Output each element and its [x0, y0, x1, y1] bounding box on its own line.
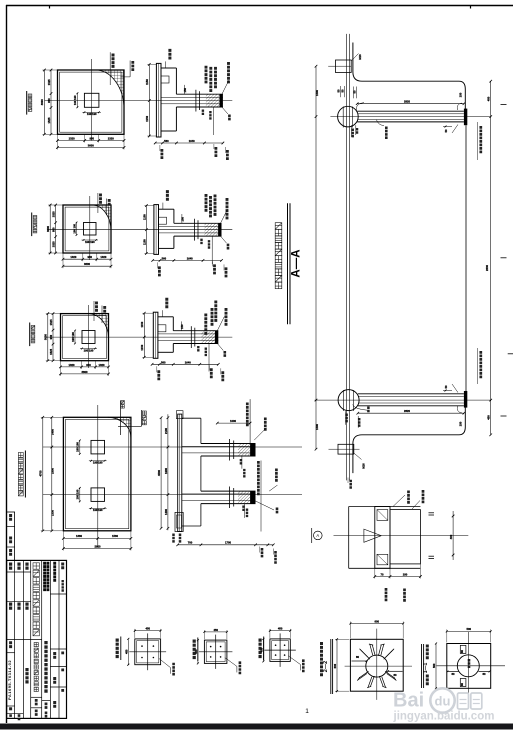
foundation slab outline (double border) — [58, 70, 125, 134]
quarter-circle rebar hatch zone — [95, 70, 124, 109]
foundation slab outline (double border) — [61, 314, 109, 361]
centerlines — [45, 100, 233, 102]
svg-text:2820: 2820 — [404, 409, 410, 413]
gusset wedge — [364, 529, 381, 542]
small dims beside upper clamp — [339, 86, 341, 97]
bottom black bar — [0, 724, 513, 730]
radial ribs of 2-2 — [386, 649, 394, 657]
svg-text:1640: 1640 — [185, 360, 191, 364]
svg-text:1320: 1320 — [70, 255, 76, 259]
svg-text:80: 80 — [394, 673, 397, 677]
svg-text:950: 950 — [88, 255, 93, 259]
anchor dim above section J-4 — [217, 422, 250, 424]
svg-text:1640: 1640 — [189, 139, 195, 143]
svg-text:50: 50 — [444, 129, 448, 132]
slab of section J-4 — [178, 414, 182, 531]
svg-text:1525: 1525 — [52, 241, 56, 247]
title of J-4 plan — [24, 451, 26, 498]
beam end plate and hatch — [215, 331, 218, 344]
svg-text:80: 80 — [460, 650, 464, 653]
pole circle of 1-1 — [457, 655, 479, 677]
quarter-circle rebar hatch zone — [88, 314, 109, 338]
right angle-steel note top — [479, 126, 482, 153]
svg-text:1360: 1360 — [76, 534, 82, 538]
svg-text:700: 700 — [188, 541, 193, 545]
svg-text:80: 80 — [483, 672, 486, 676]
dims of 1-1 — [447, 630, 491, 632]
bottom dims of J-4 — [63, 537, 130, 539]
svg-text:450: 450 — [145, 627, 150, 631]
pedestal — [84, 223, 97, 236]
svg-text:80: 80 — [356, 655, 359, 659]
below beam stubs of J-4 — [241, 456, 243, 469]
anchor bolt marks — [190, 326, 192, 348]
section view of foundation J-4 with two stub beams — [157, 399, 277, 564]
svg-text:1700: 1700 — [225, 541, 231, 545]
svg-text:2830: 2830 — [485, 265, 489, 271]
section view 3-3 of foundation J-3 — [140, 298, 226, 382]
embedded plate M-1 side detail — [312, 490, 469, 602]
svg-text:70: 70 — [381, 572, 384, 576]
weld marks — [429, 512, 435, 514]
svg-text:1500: 1500 — [315, 90, 319, 96]
section view 2-2 of foundation J-2 — [142, 190, 228, 277]
centerlines of 1-1 — [467, 632, 469, 700]
svg-text:3600: 3600 — [88, 144, 94, 148]
svg-text:190 190: 190 190 — [93, 508, 103, 512]
plan view foundation J-4 (double pedestal) — [18, 401, 302, 551]
svg-text:190 190: 190 190 — [76, 489, 80, 499]
80 dim arms of 2-2 — [352, 660, 367, 662]
pole circle of 2-2 — [366, 655, 388, 677]
svg-text:190 190: 190 190 — [73, 95, 77, 105]
plate body — [375, 507, 390, 569]
detail section 2-2 pole foundation — [322, 619, 413, 700]
foundation body outline — [158, 316, 173, 318]
svg-text:190 190: 190 190 — [71, 332, 75, 342]
upper crossarm — [357, 110, 464, 112]
anchor bolt marks — [195, 90, 197, 112]
excavation outline bottom — [353, 406, 465, 473]
detail section 1-1 pole foundation — [422, 627, 506, 700]
svg-text:180: 180 — [403, 572, 408, 576]
stub beam A of section J-4 — [201, 443, 256, 445]
right overall dim of A-A — [490, 81, 492, 435]
svg-text:1150: 1150 — [145, 115, 149, 121]
stub beam — [174, 222, 222, 224]
bottom dimension lines — [63, 258, 111, 260]
svg-text:1320: 1320 — [69, 137, 75, 141]
svg-text:1320: 1320 — [100, 255, 106, 259]
svg-text:4500: 4500 — [157, 470, 161, 476]
svg-text:80: 80 — [460, 683, 464, 686]
view title A-A with Chinese subtitle — [275, 203, 302, 324]
pole tip label — [349, 480, 352, 489]
svg-text:2820: 2820 — [404, 100, 410, 104]
svg-text:1400: 1400 — [164, 509, 168, 515]
pedestal — [82, 331, 95, 344]
svg-text:600: 600 — [333, 663, 337, 668]
material note leaders — [204, 314, 207, 335]
labels below upper clamp circle — [351, 125, 353, 137]
quarter-circle rebar hatch zone — [92, 205, 111, 231]
label 2-2 — [330, 639, 332, 694]
svg-text:950: 950 — [89, 137, 94, 141]
svg-text:50: 50 — [341, 89, 345, 92]
svg-text:950: 950 — [47, 98, 51, 103]
svg-text:1525: 1525 — [49, 319, 53, 325]
svg-text:190 190: 190 190 — [85, 240, 95, 244]
dim pockets of 1-1 — [460, 645, 466, 653]
svg-text:190 190: 190 190 — [72, 223, 76, 233]
svg-text:450: 450 — [278, 627, 283, 631]
section view 1-1 of foundation J-1 — [145, 49, 229, 160]
bottom dimension lines — [58, 140, 125, 142]
svg-text:1640: 1640 — [187, 256, 193, 260]
label 1-1 — [421, 644, 423, 688]
svg-text:M16: M16 — [358, 54, 362, 60]
pedestal dims of J-4 — [79, 440, 81, 454]
svg-text:1560: 1560 — [112, 534, 118, 538]
svg-text:950: 950 — [86, 363, 91, 367]
body of section J-4 — [182, 417, 201, 419]
svg-text:jingyan.baidu.com: jingyan.baidu.com — [393, 711, 495, 723]
svg-text:190 190: 190 190 — [84, 348, 94, 352]
left dimension lines — [47, 314, 49, 361]
svg-text:1150: 1150 — [140, 321, 144, 327]
pedestal dimensions 190x190 — [74, 331, 76, 344]
left dims of J-4 — [42, 417, 44, 531]
svg-text:80: 80 — [452, 672, 455, 676]
foundation slab edge view — [153, 312, 158, 358]
pedestal A of J-4 — [91, 440, 105, 454]
svg-text:Bai: Bai — [393, 690, 424, 712]
dim above upper crossarm — [357, 103, 464, 105]
anchor bolt marks — [194, 219, 196, 241]
beam end plate and hatch — [220, 94, 223, 107]
svg-text:560: 560 — [161, 360, 166, 364]
labels below lower clamp circle — [345, 411, 347, 425]
svg-text:950: 950 — [49, 334, 53, 339]
svg-text:50: 50 — [336, 89, 340, 92]
left dim of section J-4 — [160, 418, 162, 529]
bottom dimension chain — [153, 259, 222, 261]
svg-text:500: 500 — [432, 663, 436, 668]
dims of 2-2 — [350, 623, 403, 625]
svg-text:1150: 1150 — [140, 344, 144, 350]
view title (rotated) — [26, 91, 28, 115]
plan view foundation J-1 — [27, 52, 233, 149]
left dimension lines — [49, 205, 51, 253]
svg-text:1900: 1900 — [164, 468, 168, 474]
right leader notes of J-4 — [260, 461, 262, 532]
anchor plate detail D3 — [259, 627, 303, 673]
foundation body outline — [159, 208, 174, 210]
svg-text:1320: 1320 — [99, 363, 105, 367]
angled leader beam A of J-4 — [254, 428, 266, 440]
plan view foundation J-2 — [32, 193, 233, 268]
bolt ticks on beams of J-4 — [229, 439, 231, 461]
height dimension line — [148, 64, 150, 136]
svg-text:3600: 3600 — [82, 370, 88, 374]
anchor pockets — [377, 510, 388, 521]
foundation slab edge view — [154, 205, 159, 255]
svg-text:560: 560 — [162, 256, 167, 260]
section mark circle A — [314, 531, 323, 540]
leader arc upper crossarm — [356, 103, 364, 111]
left height dim of A-A — [315, 66, 317, 449]
lower crossarm clamp circle — [338, 390, 359, 411]
revision cells above title block — [7, 512, 15, 560]
view title (rotated) — [29, 323, 31, 347]
note leaders — [93, 301, 95, 321]
anchor plate detail D1 — [117, 627, 173, 676]
stub beam B of section J-4 — [201, 490, 256, 492]
right dim of M-1 — [452, 511, 454, 560]
svg-text:50: 50 — [353, 90, 357, 93]
svg-text:3600: 3600 — [84, 262, 90, 266]
svg-text:3600: 3600 — [40, 99, 44, 105]
bolt cluster below upper beam end — [443, 126, 452, 128]
embedded anchor at slab bottom of J-4 — [175, 512, 183, 531]
svg-text:190 190: 190 190 — [76, 442, 80, 452]
left dimension lines — [43, 70, 45, 134]
svg-text:150: 150 — [459, 92, 463, 97]
svg-text:2—2: 2—2 — [323, 661, 329, 672]
far right cut-off dim marks — [501, 103, 507, 105]
note leaders — [109, 52, 111, 85]
centerlines of 2-2 — [376, 629, 378, 700]
svg-text:450: 450 — [124, 649, 128, 654]
svg-text:2920: 2920 — [95, 544, 101, 548]
svg-text:1525: 1525 — [47, 79, 51, 85]
svg-text:1320: 1320 — [108, 137, 114, 141]
foundation slab edge view — [156, 63, 161, 137]
A-A elevation: concrete pole with two crossarms — [315, 34, 513, 489]
svg-text:450: 450 — [487, 415, 491, 420]
svg-text:150: 150 — [459, 421, 463, 426]
note leaders — [97, 193, 99, 213]
svg-text:1: 1 — [305, 708, 309, 715]
material note leaders — [205, 194, 208, 212]
height dimension line — [143, 313, 145, 357]
svg-text:1525: 1525 — [52, 211, 56, 217]
svg-text:190 190: 190 190 — [87, 112, 97, 116]
lower crossarm centerline — [315, 399, 491, 401]
svg-text:1450: 1450 — [51, 429, 55, 435]
tie bar between crossarm ends — [465, 125, 467, 391]
top clamp plate on pole — [336, 60, 352, 73]
centerlines — [46, 336, 232, 338]
title block texts — [9, 563, 12, 570]
pole shaft — [346, 34, 348, 481]
material note leaders — [205, 66, 208, 84]
svg-text:600: 600 — [375, 619, 380, 623]
svg-text:560: 560 — [164, 139, 169, 143]
bottom dim chain of J-4 section — [178, 544, 274, 546]
upper crossarm clamp circle — [338, 106, 359, 127]
svg-text:50: 50 — [444, 385, 448, 388]
svg-text:1500: 1500 — [315, 424, 319, 430]
foundation body outline — [161, 67, 176, 69]
bolt cluster above lower beam end — [443, 390, 452, 392]
pedestal B of J-4 — [91, 488, 105, 502]
centerline of M-1 — [334, 535, 469, 537]
leader from upper crossarm down — [377, 120, 385, 126]
dim below lower crossarm — [358, 412, 464, 414]
svg-text:950: 950 — [52, 227, 56, 232]
svg-text:1150: 1150 — [145, 79, 149, 85]
right angle-steel note bottom — [479, 351, 482, 378]
svg-text:190 190: 190 190 — [93, 461, 103, 465]
view title (rotated) — [31, 213, 33, 237]
bottom dimension chain — [152, 363, 218, 365]
svg-text:500: 500 — [467, 627, 472, 631]
svg-text:2100: 2100 — [164, 428, 168, 434]
svg-text:du: du — [435, 694, 451, 709]
upper crossarm centerline — [330, 116, 490, 118]
bottom dim of M-1 — [375, 576, 421, 578]
svg-text:1000: 1000 — [230, 419, 236, 423]
anchor plate detail D2 — [194, 628, 240, 674]
svg-text:400: 400 — [449, 534, 453, 539]
centerlines of J-4 — [97, 405, 99, 547]
beam end plate and hatch — [218, 223, 221, 236]
Baidu watermark — [393, 688, 495, 722]
svg-text:1—1: 1—1 — [423, 663, 429, 674]
top leaders of M-1 — [393, 495, 405, 507]
hatch note leader of J-4 — [120, 401, 122, 436]
foundation slab outline (double border) — [63, 205, 111, 253]
svg-text:1150: 1150 — [142, 214, 146, 220]
svg-text:A: A — [316, 533, 319, 538]
svg-text:A—A: A—A — [291, 249, 303, 277]
svg-text:1525: 1525 — [47, 117, 51, 123]
svg-text:150: 150 — [183, 87, 187, 92]
svg-text:1320: 1320 — [69, 363, 75, 367]
excavation outline top — [353, 43, 465, 110]
bottom labels of M-1 — [385, 588, 388, 601]
lower crossarm — [358, 393, 464, 395]
svg-text:1900: 1900 — [51, 468, 55, 474]
height dimension line — [145, 206, 147, 254]
centerlines — [47, 229, 232, 231]
svg-text:3600: 3600 — [44, 334, 48, 340]
svg-text:1525: 1525 — [49, 348, 53, 354]
svg-text:450: 450 — [213, 628, 218, 632]
svg-text:1150: 1150 — [142, 239, 146, 245]
pedestal dimensions 190x190 — [76, 93, 78, 107]
svg-text:1330: 1330 — [51, 510, 55, 516]
bottom dimension lines — [61, 366, 109, 368]
stub beam — [176, 93, 223, 95]
title block table — [7, 560, 67, 720]
pedestal — [84, 93, 99, 107]
bottom clamp plate on pole — [338, 444, 354, 454]
svg-text:150: 150 — [180, 324, 184, 329]
svg-text:4700: 4700 — [39, 470, 43, 476]
leader arc lower crossarm — [353, 405, 368, 411]
bottom dimension chain — [155, 142, 223, 144]
svg-text:M16: M16 — [362, 463, 366, 469]
svg-text:150: 150 — [180, 217, 184, 222]
svg-text:PA1095-T0314-02: PA1095-T0314-02 — [7, 660, 12, 700]
svg-text:450: 450 — [487, 96, 491, 101]
plan view foundation J-3 — [30, 301, 233, 376]
pedestal dimensions 190x190 — [76, 223, 78, 236]
stub beam — [173, 330, 218, 332]
svg-text:3600: 3600 — [46, 226, 50, 232]
